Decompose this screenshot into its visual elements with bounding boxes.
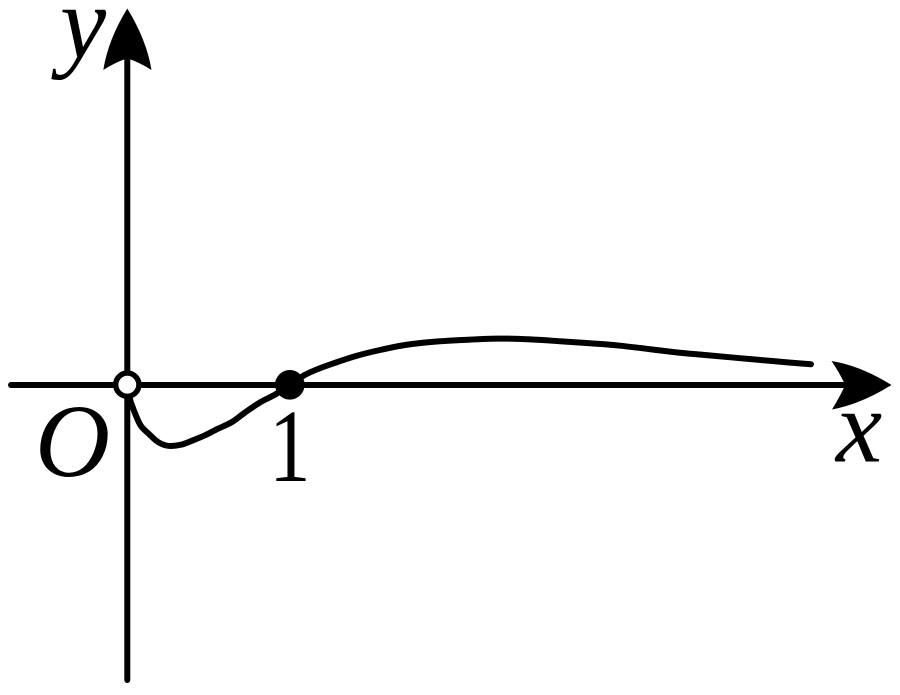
svg-text:O: O [35,384,110,499]
y-axis [124,58,130,680]
x-axis [11,382,845,388]
x-axis arrowhead [832,361,892,410]
svg-text:1: 1 [269,389,311,504]
svg-text:y: y [51,0,107,81]
y-axis arrowhead [103,9,151,71]
curve [128,339,811,446]
open circle at origin [116,373,139,396]
svg-text:x: x [834,370,882,485]
filled dot at x=1 [275,370,305,400]
